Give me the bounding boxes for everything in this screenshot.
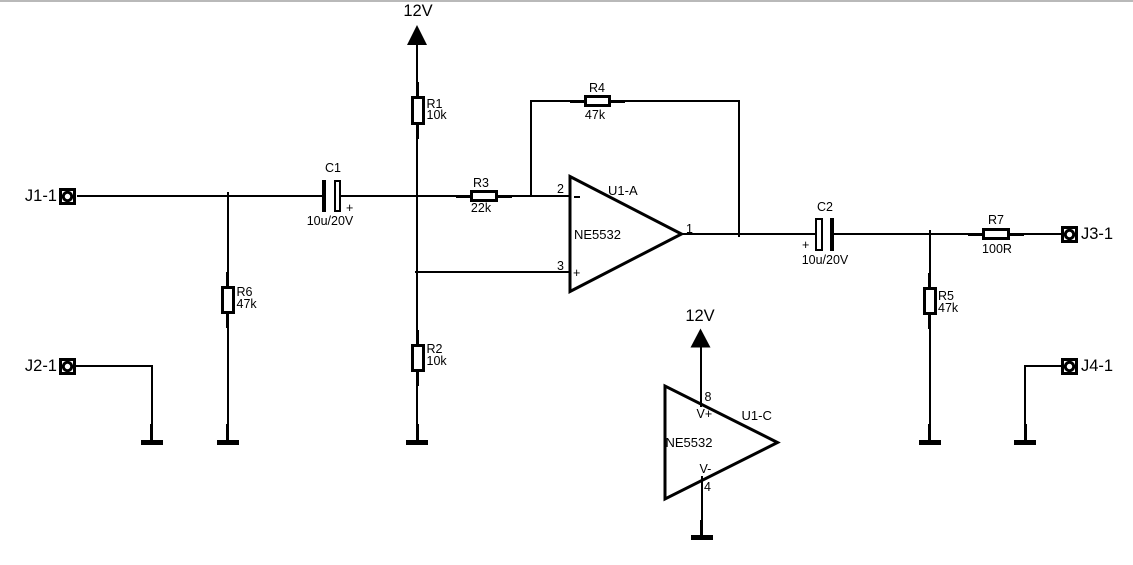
resistor R2 stubs <box>416 330 419 344</box>
resistor R1 <box>411 96 425 125</box>
resistor R7 stubs <box>968 233 982 236</box>
resistor R5 <box>923 287 937 315</box>
resistor R4 <box>584 95 611 107</box>
resistor R7 <box>982 228 1010 240</box>
resistor R3 <box>470 190 498 202</box>
label J1-1 <box>7 188 57 204</box>
wire C2 to J3 <box>834 233 1061 235</box>
wire U1-C pin4 <box>701 476 703 520</box>
power 12V label mid <box>670 308 730 324</box>
label R4 <box>567 83 627 95</box>
wire J4 horizontal <box>1024 365 1061 367</box>
connector J2-1 <box>59 358 76 375</box>
resistor R6 stubs <box>226 272 229 286</box>
wire U1-C pin8 <box>700 347 702 407</box>
wire J2 vertical <box>151 365 153 440</box>
ground R5 <box>928 424 931 440</box>
wire R6 branch vertical <box>227 192 229 440</box>
resistor R5 stubs <box>928 273 931 287</box>
capacitor C2 <box>815 218 823 251</box>
top grey bar <box>0 0 1133 2</box>
wire J1 to C1 <box>77 195 322 197</box>
label 22k <box>451 203 511 215</box>
ground J4 <box>1024 424 1027 440</box>
label C2 value <box>795 255 855 267</box>
wire output to C2 <box>681 233 815 235</box>
ground U1-C <box>700 520 703 535</box>
label V- <box>700 464 712 476</box>
ground R2 <box>416 424 419 440</box>
label pin 3 <box>534 261 564 273</box>
resistor R6 <box>221 286 235 314</box>
connector J1-1 <box>59 188 76 205</box>
label R3 <box>451 178 511 190</box>
connector J4-1 <box>1061 358 1078 375</box>
resistor R1 stubs <box>416 82 419 96</box>
ground R6 <box>226 424 229 440</box>
wire J2 horizontal <box>76 365 152 367</box>
capacitor C1 <box>322 180 326 212</box>
wire main vertical R1-R2 <box>416 45 418 440</box>
connector J3-1 <box>1061 226 1078 243</box>
label C1 value <box>300 216 360 228</box>
resistor R2 <box>411 344 425 372</box>
label pin 4 <box>704 482 711 494</box>
label C2 plus <box>802 240 809 252</box>
label J2-1 <box>7 358 57 374</box>
ground J2 <box>150 424 153 440</box>
label plus <box>573 268 580 280</box>
resistor R4 stubs <box>570 100 584 103</box>
label 47k <box>565 110 625 122</box>
resistor R3 stubs <box>456 195 470 198</box>
label U1-C <box>742 409 772 422</box>
label J4-1 <box>1081 358 1113 374</box>
wire feedback left vertical <box>530 100 532 197</box>
wire R5 branch vertical <box>929 230 931 440</box>
label C1 plus <box>346 203 353 215</box>
label R5 47k <box>938 291 958 314</box>
label pin 8 <box>705 392 712 404</box>
label C1 <box>303 163 363 175</box>
label minus <box>574 196 580 198</box>
label NE5532 C <box>666 436 713 449</box>
label C2 <box>795 202 855 214</box>
label R7 <box>966 215 1026 227</box>
wire feedback right vertical <box>738 100 740 237</box>
label R6 47k <box>237 287 257 310</box>
label V+ <box>697 409 713 421</box>
label pin 1 <box>686 224 693 236</box>
label R1 10k <box>427 99 447 122</box>
wire pin3 <box>415 271 570 273</box>
label NE5532 A <box>574 228 621 241</box>
label J3-1 <box>1081 226 1113 242</box>
label pin 2 <box>534 184 564 196</box>
wire feedback top <box>530 100 740 102</box>
wire R3 to pin2 <box>498 195 570 197</box>
label 100R <box>967 244 1027 256</box>
label R2 10k <box>427 344 447 367</box>
wire J4 vertical <box>1024 365 1026 440</box>
wire C1 to R3 <box>341 195 470 197</box>
power 12V label top <box>388 3 448 19</box>
label U1-A <box>608 184 638 197</box>
